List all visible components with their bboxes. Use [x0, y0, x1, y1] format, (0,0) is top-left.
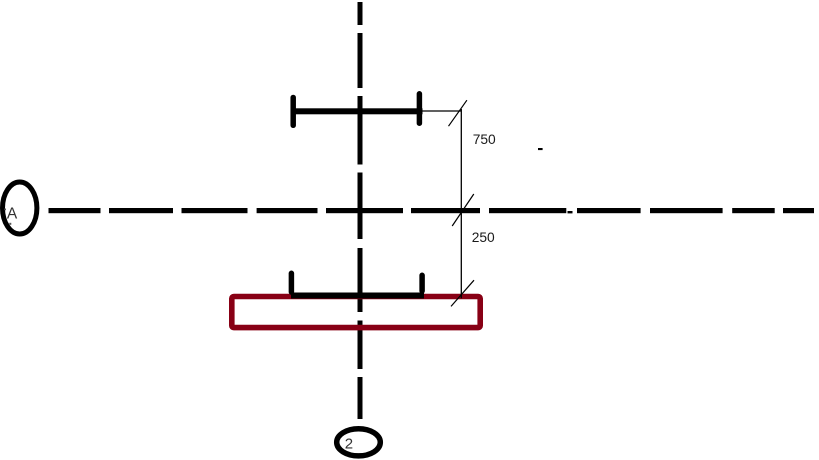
dimension extension line horizontal: [422, 110, 461, 112]
svg-text:250: 250: [472, 230, 495, 245]
stray dash mark: [538, 148, 543, 150]
svg-text:750: 750: [473, 132, 496, 147]
grid bubble A: [3, 182, 37, 234]
dimension tick slash top: [449, 100, 467, 126]
red plate (beam outline): [232, 297, 480, 328]
svg-text:2: 2: [345, 436, 353, 453]
small step mark at end of dash: [568, 211, 573, 213]
lower beam right tick: [419, 275, 425, 291]
dimension tick slash bottom: [451, 280, 474, 306]
lower beam left tick: [289, 273, 295, 292]
top beam right cap: [417, 94, 423, 123]
svg-text:A: A: [7, 205, 18, 222]
grid bubble 2: [337, 429, 381, 456]
horizontal axis A (dashed centerline): [49, 208, 815, 213]
top beam line: [291, 108, 423, 114]
top beam left cap: [290, 98, 296, 126]
vertical axis 2 (dashed centerline): [358, 2, 363, 419]
dimension tick slash middle: [452, 194, 474, 226]
dimension line vertical: [460, 109, 462, 298]
lower beam line: [291, 293, 424, 299]
